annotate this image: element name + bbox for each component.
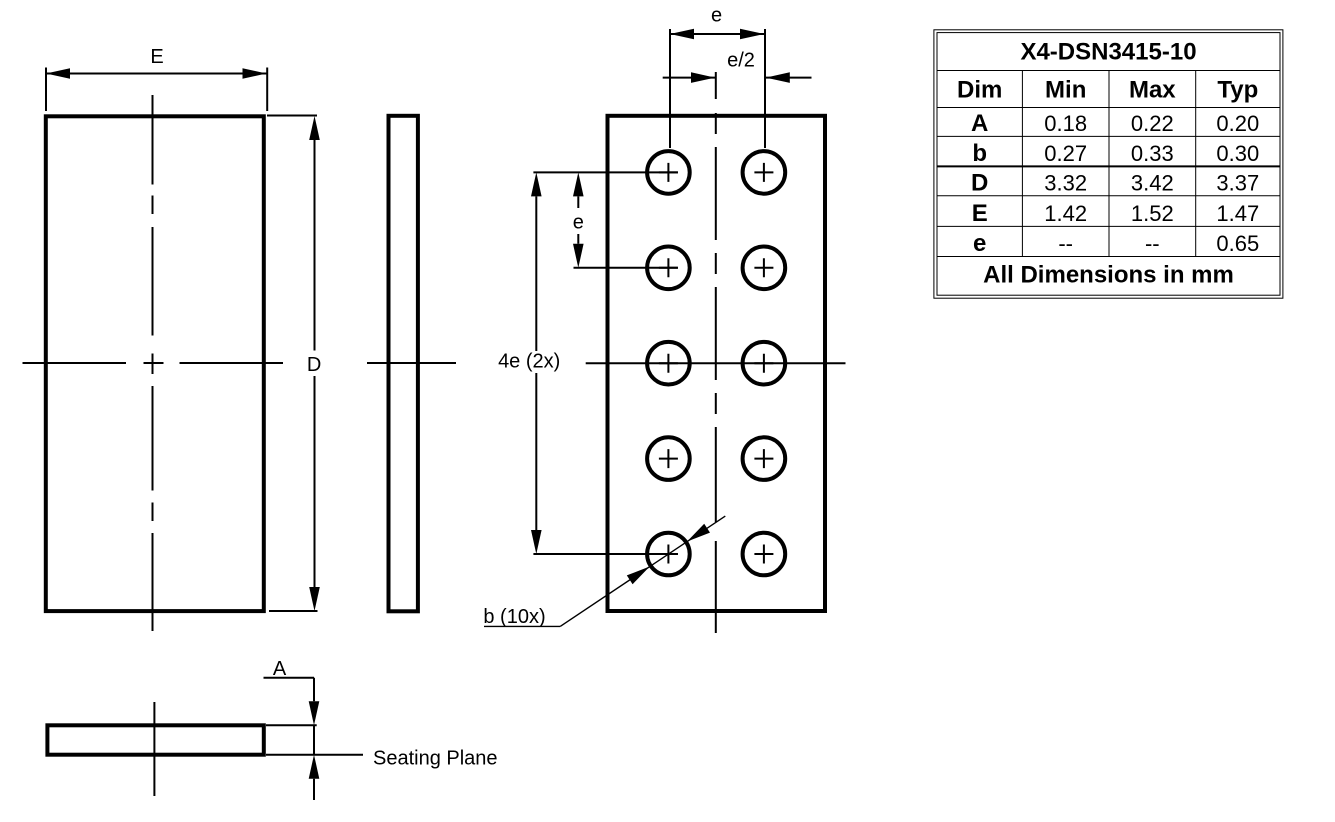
svg-text:D: D	[307, 354, 321, 376]
svg-text:1.42: 1.42	[1044, 201, 1087, 226]
svg-text:0.33: 0.33	[1131, 141, 1174, 166]
svg-text:b: b	[972, 140, 987, 167]
svg-text:A: A	[971, 110, 988, 137]
svg-text:--: --	[1058, 231, 1073, 256]
svg-text:Typ: Typ	[1217, 77, 1258, 104]
svg-text:e: e	[973, 230, 986, 257]
svg-text:3.32: 3.32	[1044, 171, 1087, 196]
svg-text:X4-DSN3415-10: X4-DSN3415-10	[1020, 39, 1196, 66]
svg-text:0.65: 0.65	[1216, 231, 1259, 256]
svg-text:1.52: 1.52	[1131, 201, 1174, 226]
svg-text:A: A	[273, 658, 287, 680]
svg-text:1.47: 1.47	[1216, 201, 1259, 226]
svg-text:b (10x): b (10x)	[483, 606, 545, 628]
svg-text:D: D	[971, 170, 988, 197]
svg-text:E: E	[972, 200, 988, 227]
svg-text:4e (2x): 4e (2x)	[498, 351, 560, 373]
svg-text:3.42: 3.42	[1131, 171, 1174, 196]
svg-text:0.30: 0.30	[1216, 141, 1259, 166]
svg-text:Max: Max	[1129, 77, 1176, 104]
svg-text:Dim: Dim	[957, 77, 1002, 104]
svg-text:e/2: e/2	[727, 50, 755, 72]
svg-text:0.20: 0.20	[1216, 111, 1259, 136]
svg-text:Min: Min	[1045, 77, 1086, 104]
svg-text:0.27: 0.27	[1044, 141, 1087, 166]
svg-text:All Dimensions in mm: All Dimensions in mm	[983, 262, 1234, 289]
svg-text:E: E	[150, 46, 163, 68]
svg-text:3.37: 3.37	[1216, 171, 1259, 196]
svg-text:--: --	[1145, 231, 1160, 256]
svg-text:e: e	[711, 5, 722, 27]
svg-text:e: e	[573, 211, 584, 233]
svg-text:Seating Plane: Seating Plane	[373, 748, 498, 770]
svg-text:0.22: 0.22	[1131, 111, 1174, 136]
svg-text:0.18: 0.18	[1044, 111, 1087, 136]
